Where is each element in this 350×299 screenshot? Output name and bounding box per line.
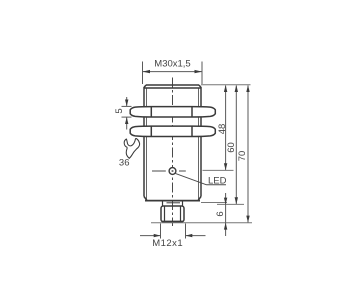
svg-text:48: 48 [217, 124, 228, 135]
svg-text:LED: LED [208, 175, 227, 186]
svg-text:M30x1,5: M30x1,5 [154, 59, 190, 70]
svg-text:M12x1: M12x1 [152, 238, 183, 249]
svg-text:6: 6 [215, 211, 226, 216]
svg-text:36: 36 [119, 158, 130, 169]
svg-text:5: 5 [114, 108, 125, 113]
svg-text:70: 70 [237, 151, 248, 162]
svg-text:60: 60 [226, 142, 237, 153]
